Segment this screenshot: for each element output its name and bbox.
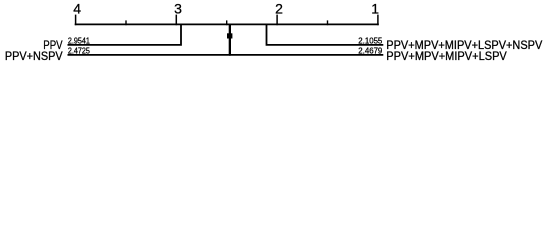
PPV+MPV+MIPV+LSPV+NSPV drop line (rank 2.1055) (267, 24, 384, 44)
svg-text:2: 2 (275, 1, 283, 17)
svg-text:4: 4 (73, 1, 81, 17)
PPV+NSPV drop line (rank 2.4725) (68, 24, 230, 54)
axis main line (75, 23, 379, 25)
PPV drop line (rank 2.9541) (68, 24, 182, 44)
clique bar connecting PPV+NSPV and PPV+MPV+MIPV+LSPV (227, 33, 232, 38)
svg-text:2.9541: 2.9541 (68, 36, 90, 45)
minor tick 2.5 (226, 20, 228, 25)
svg-text:PPV+MPV+MIPV+LSPV: PPV+MPV+MIPV+LSPV (386, 50, 507, 63)
svg-text:2.1055: 2.1055 (358, 36, 382, 45)
svg-text:3: 3 (174, 1, 182, 17)
svg-text:2.4725: 2.4725 (68, 47, 90, 56)
svg-text:PPV+NSPV: PPV+NSPV (5, 50, 63, 63)
svg-text:1: 1 (371, 1, 379, 17)
minor tick 1.5 (327, 20, 329, 25)
PPV+MPV+MIPV+LSPV drop line (rank 2.4679) (230, 24, 383, 54)
major tick 4 (75, 15, 77, 26)
major tick 2 (276, 15, 278, 26)
major tick 3 (175, 15, 177, 26)
svg-text:2.4679: 2.4679 (358, 47, 382, 56)
minor tick 3.5 (125, 20, 127, 25)
major tick 1 (377, 15, 379, 26)
